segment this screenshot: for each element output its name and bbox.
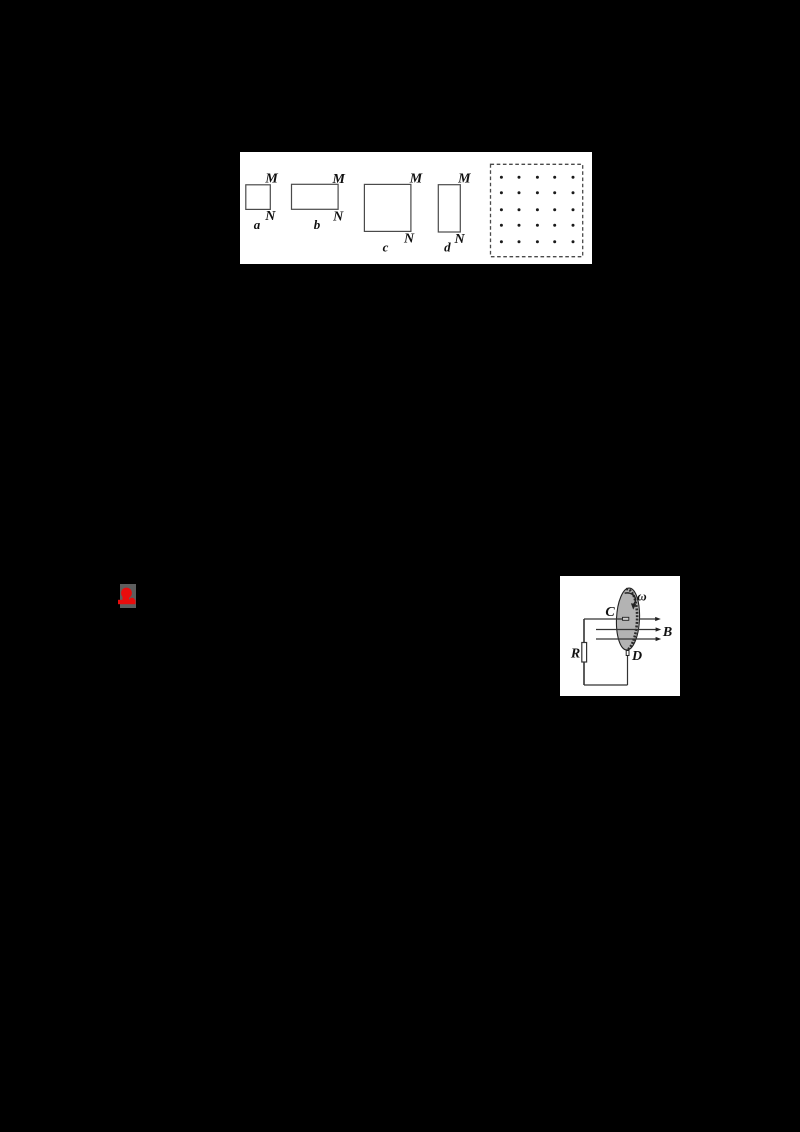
svg-text:M: M (331, 172, 345, 187)
svg-text:c: c (383, 240, 389, 255)
svg-text:M: M (457, 172, 471, 187)
svg-text:M: M (409, 172, 423, 187)
svg-text:N: N (453, 232, 465, 247)
wire from brush C to left (584, 618, 623, 620)
figure 1: four loops and field region (240, 152, 592, 264)
svg-text:B: B (662, 625, 672, 640)
disc (rotating) (615, 588, 641, 651)
svg-text:N: N (403, 232, 415, 247)
brush C (623, 617, 629, 620)
svg-text:a: a (254, 217, 261, 232)
svg-text:N: N (264, 209, 276, 224)
wire right vertical up to brush D (627, 656, 629, 686)
field line arrow 2 (596, 629, 658, 631)
disc rim (thickness, dashed) (624, 589, 639, 650)
svg-text:ω: ω (637, 588, 646, 603)
wire left vertical (top) (583, 619, 585, 643)
loop d (438, 185, 460, 232)
brush D (626, 651, 629, 656)
field line arrow 3 (596, 638, 658, 640)
field dots (B out of page) (500, 176, 575, 244)
svg-text:R: R (570, 647, 580, 662)
loop b (292, 184, 339, 209)
field line arrow 1 (640, 618, 659, 620)
wire bottom horizontal (584, 684, 628, 686)
rotation arrow omega (625, 593, 636, 604)
loop a (246, 185, 270, 210)
wire left vertical (bottom) (583, 662, 585, 685)
svg-text:M: M (264, 172, 278, 187)
svg-text:b: b (314, 217, 321, 232)
loop c (364, 184, 411, 231)
red marker icon (118, 584, 138, 608)
field region dashed boundary (491, 164, 583, 256)
svg-text:C: C (605, 605, 615, 620)
svg-text:d: d (444, 240, 451, 255)
svg-text:N: N (332, 210, 344, 225)
svg-text:D: D (631, 649, 642, 664)
figure 2: rotating disc circuit (560, 576, 680, 696)
resistor R (582, 643, 587, 663)
